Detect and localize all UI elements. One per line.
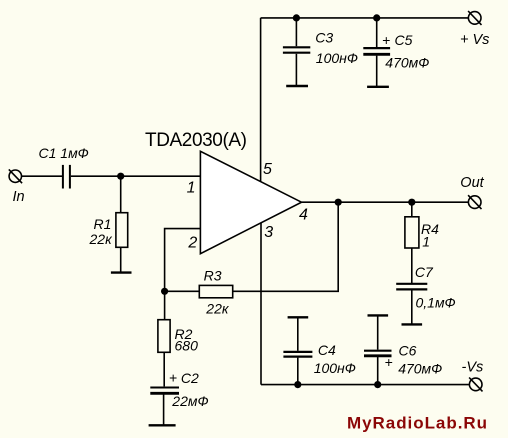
svg-text:22к: 22к bbox=[205, 300, 230, 316]
svg-text:470мФ: 470мФ bbox=[398, 360, 442, 376]
capacitor C1 bbox=[63, 165, 70, 189]
svg-text:R1: R1 bbox=[94, 216, 112, 232]
svg-text:C7: C7 bbox=[415, 264, 434, 280]
node C6 on -Vs rail bbox=[374, 381, 381, 388]
svg-text:1: 1 bbox=[422, 233, 430, 249]
terminal -Vs bbox=[469, 378, 482, 392]
terminal Out bbox=[468, 195, 481, 209]
capacitor C7 bbox=[396, 284, 427, 324]
wire -Vs rail bbox=[261, 384, 469, 386]
ground under C5 bbox=[367, 86, 389, 88]
svg-text:+ Vs: + Vs bbox=[460, 32, 489, 48]
wire op-amp pin 5 to +Vs rail bbox=[260, 18, 262, 182]
svg-text:+: + bbox=[382, 32, 390, 48]
svg-text:TDA2030(A): TDA2030(A) bbox=[145, 130, 247, 151]
svg-text:C6: C6 bbox=[399, 343, 417, 359]
svg-text:C3: C3 bbox=[315, 29, 333, 45]
svg-text:3: 3 bbox=[264, 224, 273, 241]
wire feedback node to R3 bbox=[165, 290, 200, 292]
svg-text:470мФ: 470мФ bbox=[385, 55, 429, 71]
ground under C7 bbox=[402, 323, 423, 325]
wire In terminal to C1 bbox=[22, 175, 63, 177]
svg-text:1: 1 bbox=[187, 180, 196, 197]
svg-text:C1 1мФ: C1 1мФ bbox=[39, 145, 89, 161]
svg-text:-Vs: -Vs bbox=[462, 360, 484, 376]
resistor R1 bbox=[116, 176, 128, 272]
svg-text:22мФ: 22мФ bbox=[171, 393, 208, 409]
svg-text:+: + bbox=[385, 354, 393, 370]
svg-text:680: 680 bbox=[175, 338, 199, 354]
ground above C6 bbox=[368, 314, 389, 316]
wire R3 to output node bbox=[233, 202, 339, 291]
wire op-amp pin 3 to -Vs rail bbox=[260, 223, 262, 385]
capacitor C4 bbox=[283, 318, 312, 385]
svg-text:100нФ: 100нФ bbox=[314, 360, 356, 376]
ground under C2 bbox=[149, 424, 176, 426]
svg-text:C5: C5 bbox=[395, 32, 413, 48]
node output feedback junction bbox=[335, 199, 342, 206]
node input junction bbox=[117, 173, 124, 180]
wire op-amp pin 2 bbox=[165, 229, 201, 292]
svg-text:0,1мФ: 0,1мФ bbox=[416, 294, 456, 310]
capacitor C3 bbox=[283, 18, 310, 86]
capacitor C2 electrolytic bbox=[150, 388, 179, 425]
svg-text:R3: R3 bbox=[204, 268, 222, 284]
wire op-amp output pin 4 to Out bbox=[302, 201, 469, 203]
ground above C4 bbox=[288, 316, 309, 318]
wire C1 to op-amp pin 1 bbox=[71, 175, 201, 177]
svg-text:+: + bbox=[169, 370, 177, 386]
resistor R4 bbox=[405, 202, 419, 283]
wire +Vs rail bbox=[261, 17, 469, 19]
svg-text:22к: 22к bbox=[89, 231, 114, 247]
op-amp U1 TDA2030 bbox=[200, 151, 301, 253]
node output R4 junction bbox=[408, 199, 415, 206]
ground under R1 bbox=[111, 271, 132, 273]
terminal In bbox=[9, 169, 22, 183]
node feedback junction bbox=[161, 288, 168, 295]
resistor R2 bbox=[158, 291, 170, 386]
terminal +Vs bbox=[468, 11, 481, 25]
resistor R3 bbox=[199, 285, 232, 297]
svg-text:4: 4 bbox=[299, 207, 308, 224]
svg-text:In: In bbox=[13, 189, 25, 205]
svg-text:C2: C2 bbox=[181, 370, 199, 386]
svg-text:5: 5 bbox=[263, 161, 272, 178]
svg-text:C4: C4 bbox=[318, 342, 336, 358]
node C3 on +Vs rail bbox=[293, 14, 300, 21]
svg-text:MyRadioLab.Ru: MyRadioLab.Ru bbox=[347, 414, 487, 433]
node C5 on +Vs rail bbox=[373, 14, 380, 21]
svg-text:100нФ: 100нФ bbox=[316, 50, 358, 66]
ground under C3 bbox=[286, 85, 308, 87]
capacitor C6 electrolytic bbox=[364, 316, 392, 385]
svg-text:2: 2 bbox=[187, 234, 197, 251]
node C4 on -Vs rail bbox=[294, 381, 301, 388]
capacitor C5 electrolytic bbox=[363, 18, 390, 87]
svg-text:Out: Out bbox=[460, 175, 484, 191]
